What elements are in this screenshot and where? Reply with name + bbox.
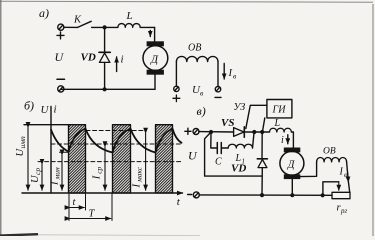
terminal (+)	[193, 129, 199, 135]
svg-text:а): а)	[39, 6, 49, 20]
y axis	[50, 107, 52, 194]
dim arrow I min	[61, 155, 63, 190]
wire down to motor	[154, 27, 156, 41]
motor armature circle	[143, 46, 168, 71]
terminal right (-)	[215, 87, 220, 92]
wire left vertical	[175, 62, 177, 86]
plus sign	[57, 32, 64, 39]
svg-text:U: U	[55, 50, 65, 64]
svg-text:ОВ: ОВ	[323, 147, 336, 157]
svg-text:Д: Д	[287, 160, 296, 171]
svg-text:VS: VS	[221, 117, 234, 129]
page scan edge right	[372, 4, 374, 236]
dim arrow U imp	[27, 128, 29, 191]
label r_rg	[337, 203, 348, 216]
minus sign	[188, 194, 192, 196]
x axis	[22, 192, 183, 194]
svg-text:i: i	[54, 104, 57, 116]
motor brush top	[284, 148, 301, 153]
pulse 3 hatched	[156, 125, 173, 193]
dim arrow T	[70, 218, 111, 220]
minus sign	[215, 96, 221, 98]
node VD bottom	[260, 193, 264, 197]
node motor bottom	[290, 193, 294, 197]
inductor L1	[228, 144, 252, 148]
pulse 2 hatched	[113, 125, 131, 193]
wire	[140, 26, 154, 28]
label I avg rotated	[92, 166, 104, 180]
label U imp rotated	[15, 136, 27, 157]
motor brush bottom	[147, 70, 164, 75]
diode VD cathode bar	[99, 51, 110, 53]
svg-text:Д: Д	[150, 53, 159, 65]
label Ib	[339, 167, 348, 180]
dim arrow I avg	[104, 147, 106, 190]
dim arrow I max	[145, 133, 147, 190]
switch K blade	[78, 21, 92, 27]
wire right vertical	[217, 62, 219, 87]
tick T right	[111, 194, 113, 221]
svg-text:в): в)	[197, 104, 206, 118]
top wire to VS	[199, 131, 234, 133]
current curve	[51, 129, 182, 153]
wire node B down to VD	[261, 132, 263, 159]
inductor L	[118, 24, 140, 28]
svg-text:К: К	[73, 14, 82, 25]
dashed I avg level	[51, 143, 181, 145]
node junction top of VD	[103, 25, 107, 29]
svg-text:УЗ: УЗ	[234, 102, 246, 113]
svg-text:б): б)	[24, 99, 34, 113]
svg-text:ср: ср	[95, 166, 104, 173]
page scan edge bottom-left dark mark	[0, 234, 38, 235]
diode VD wire upper	[104, 27, 106, 52]
dashed I max level	[86, 130, 147, 132]
gate wire to GI	[246, 105, 267, 128]
svg-text:ср: ср	[33, 168, 42, 175]
svg-text:i: i	[121, 54, 124, 66]
current arrow Ib	[223, 64, 225, 80]
thyristor VS cathode bar	[243, 127, 245, 137]
motor brush top	[147, 41, 164, 46]
rheostat wiper arm	[323, 182, 339, 196]
wire node A down to C	[211, 132, 217, 148]
tick t/T left	[68, 194, 70, 221]
wire GI to node B	[262, 118, 264, 132]
plus sign	[173, 95, 180, 102]
dim arrow t	[70, 207, 84, 209]
svg-text:i: i	[281, 135, 284, 146]
svg-text:в: в	[344, 171, 347, 179]
motor brush bottom	[284, 174, 301, 179]
wire VS to L	[244, 131, 269, 133]
winding OB	[317, 157, 347, 161]
wire motor bottom to OB	[300, 162, 316, 177]
diode VD triangle	[258, 160, 267, 168]
thyristor VS triangle	[234, 128, 244, 137]
rheostat r_rg box	[332, 192, 350, 198]
bottom rail	[199, 194, 332, 196]
wire motor to bottom rail	[154, 75, 156, 90]
svg-text:I: I	[50, 181, 61, 186]
node B	[260, 130, 264, 134]
svg-text:I: I	[92, 175, 103, 180]
I min level tick	[60, 151, 69, 153]
terminal left (+)	[174, 86, 179, 91]
U imp level line	[24, 124, 69, 126]
svg-text:ОВ: ОВ	[188, 43, 201, 54]
commutation branch down from node A	[205, 132, 262, 176]
dim arrow U avg	[41, 164, 43, 190]
svg-text:I: I	[132, 184, 143, 189]
wire	[64, 26, 78, 28]
svg-text:мин: мин	[53, 167, 62, 181]
bottom rail	[61, 88, 155, 90]
diode VD wire lower	[104, 62, 106, 89]
capacitor C plates	[217, 143, 221, 154]
svg-text:I: I	[339, 167, 344, 178]
wire VD to bottom rail	[261, 168, 263, 195]
wire	[92, 26, 118, 28]
label I min rotated	[50, 167, 62, 186]
svg-text:VD: VD	[231, 163, 246, 175]
wire L1 up to top wire	[253, 132, 255, 148]
label Ib	[228, 68, 238, 81]
node rheostat tap	[321, 193, 325, 197]
pulse 1 hatched	[69, 125, 86, 193]
winding OB	[176, 56, 218, 61]
current arrow into motor	[149, 31, 151, 37]
svg-text:U: U	[41, 104, 50, 116]
svg-text:имп: имп	[18, 136, 27, 149]
node A	[209, 130, 213, 134]
page scan edge top	[0, 0, 373, 3]
svg-text:рг: рг	[340, 207, 348, 215]
inductor L smoothing	[270, 128, 292, 132]
node junction bottom of VD	[103, 87, 107, 91]
motor armature circle	[280, 151, 304, 175]
tick t right	[85, 194, 87, 210]
current arrow i	[287, 135, 289, 144]
terminal bottom-left (-)	[58, 86, 64, 92]
wire L to motor	[291, 132, 293, 148]
diode VD cathode bar	[257, 158, 267, 160]
label I max rotated	[132, 166, 144, 188]
label U avg rotated	[30, 168, 42, 183]
svg-text:макс: макс	[135, 166, 144, 183]
svg-text:I: I	[228, 68, 233, 79]
svg-text:U: U	[188, 149, 198, 163]
svg-text:L: L	[274, 118, 281, 129]
diode VD triangle	[99, 53, 110, 62]
label L1	[235, 153, 246, 166]
page scan edge left	[0, 0, 2, 236]
dashed U avg level	[38, 161, 181, 163]
node L1 top	[252, 130, 256, 134]
svg-text:VD: VD	[81, 51, 96, 63]
plus sign	[185, 128, 191, 134]
label Ub	[192, 84, 204, 98]
minus sign	[57, 78, 65, 80]
wire motor to bottom rail	[291, 179, 293, 195]
wire C to L1	[222, 147, 229, 149]
terminal top-left (+)	[58, 24, 64, 30]
terminal (-)	[193, 192, 199, 198]
svg-text:С: С	[215, 157, 222, 168]
wire OB right down with Ib arrow	[347, 162, 350, 192]
svg-text:ГИ: ГИ	[272, 105, 287, 116]
block GI	[267, 100, 292, 118]
svg-text:L: L	[126, 10, 133, 22]
current arrow i	[116, 57, 118, 72]
